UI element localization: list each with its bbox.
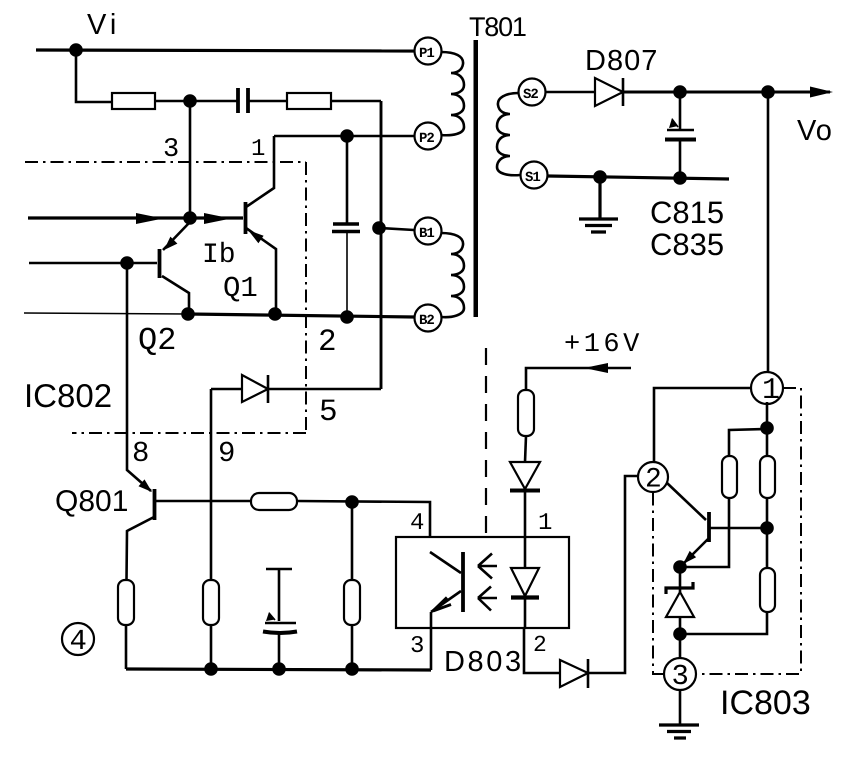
wire D-c to opto pin1 [524,490,527,537]
transistor Q2 [158,249,162,278]
node circled 4 [62,623,94,655]
svg-text:P2: P2 [419,131,434,147]
diode D-a IC802 pin5 [242,375,268,402]
arrow Q801 base [139,479,153,492]
wire R-e bottom lead [210,625,213,669]
svg-text:4: 4 [410,510,424,537]
resistor R-j [760,568,775,612]
resistor R-a [112,93,155,109]
node collector junction [345,495,359,509]
capacitor C-c electrolytic [266,569,292,621]
svg-text:B1: B1 [419,226,434,242]
transistor Q1 [244,202,248,234]
arrow C-c polarity [266,612,275,621]
arrow +16V [584,363,608,373]
wire R-c to opto pin4 [297,501,430,552]
resistor R-g [518,390,534,436]
resistor R-i [760,456,775,498]
capacitor C-b [332,224,360,232]
resistor R-h [722,456,737,498]
arrow C815 polarity [669,118,678,128]
LED of D803 [524,537,527,568]
svg-text:+16V: +16V [564,330,643,360]
node emitter junction IC803 [673,560,687,574]
wire R-f bottom lead [351,625,354,669]
arrow light 2 [478,587,497,611]
svg-text:3: 3 [672,660,689,693]
wire base drive into Q1 [28,216,243,219]
node zener bottom junction [673,627,687,641]
node Vo junction [761,85,775,99]
svg-text:C815: C815 [650,195,724,230]
wire B1 stub [379,228,414,230]
node circled 1 [751,372,783,404]
arrow base drive 1 [136,213,163,224]
svg-text:9: 9 [218,437,235,470]
node rail junction 3 [345,662,359,676]
svg-text:S1: S1 [525,170,540,186]
svg-text:T801: T801 [469,12,526,42]
wire cap C-b top lead [346,136,349,224]
wire D-b to IC803 pin2 [588,476,638,673]
node 3 junction [183,94,197,108]
wire R-f top lead [351,502,354,580]
svg-text:2: 2 [645,465,662,496]
optocoupler D803 box [396,537,569,628]
arrow Q emitter [683,551,696,564]
wire C-c bottom lead [278,633,281,669]
svg-text:Q2: Q2 [138,322,176,359]
node circled 2 [638,462,668,492]
wire Q1 collector [246,136,274,207]
wire opto pin3 down to rail [430,612,433,670]
node base junction [183,211,197,225]
node Vi junction [69,43,83,57]
wire top rail Vi to P1 [36,50,414,51]
diode D-b after pin2 [560,660,588,687]
wire R-h bottom lead [680,498,729,567]
arrow Q1 emitter [248,230,264,243]
ground secondary [579,177,618,232]
wire Q2 emitter from base junction [163,223,189,250]
arrow Vo [810,87,833,98]
node collector junction IC803 [760,521,774,535]
terminal B1 [415,218,442,245]
wire pin9 top to diode [211,388,242,391]
svg-text:1: 1 [251,136,265,163]
wire Q801 collector line [156,500,251,503]
terminal B2 [415,305,442,332]
wire secondary lower rail [548,176,729,179]
dashed separator [485,348,487,533]
node circled 3 [664,658,696,690]
svg-text:3: 3 [410,633,424,660]
node C815 top junction [673,85,687,99]
resistor R-d [118,580,134,625]
svg-text:4: 4 [70,625,87,658]
wire pin9 vertical [210,389,213,580]
phototransistor of D803 [461,552,465,612]
node ground junction [593,170,607,184]
transistor Q-IC803 [707,512,711,542]
wire Vo down to IC803 pin1 [767,92,770,372]
terminal P2 [415,123,442,150]
node B1 junction [372,221,386,235]
resistor R-f [344,580,360,625]
resistor R-b [287,93,331,109]
wire Q2 base line [29,262,157,265]
svg-text:1: 1 [538,510,552,537]
wire cap C-b bottom lead [346,231,348,317]
wire S2 to D807 [546,91,595,94]
wire R-i leads [766,428,769,568]
svg-text:Vo: Vo [797,115,833,147]
wire Q801 emitter [127,517,155,580]
wire node3 vertical [189,101,192,218]
wire R-g to diode [525,436,526,462]
ground IC803 [659,725,699,738]
svg-text:Q801: Q801 [55,485,128,518]
arrow Q2 emitter [164,237,177,250]
terminal S1 [521,162,548,189]
node Q2 base junction [120,256,134,270]
svg-text:2: 2 [318,325,337,360]
wire R-j bottom lead [680,612,767,634]
wire D807 to Vo [623,91,830,94]
svg-text:8: 8 [132,437,149,470]
resistor R-c [251,493,297,510]
wire C-a to R-b [248,100,287,103]
wire pin8 vertical [127,263,151,491]
arrow phototransistor emitter [433,598,451,612]
node Q1 emitter junction [268,307,282,321]
wire node1 line to P2 [274,135,414,138]
svg-text:D803: D803 [444,646,524,678]
wire Q collector [710,527,767,530]
wire R-b right and long vertical to diode line [331,100,381,103]
zener diode Z-a [679,567,682,592]
svg-text:5: 5 [319,395,338,430]
svg-text:1: 1 [762,374,780,408]
capacitor C-a [238,88,248,113]
transistor Q801 [153,489,157,520]
wire opto pin2 down [524,628,560,673]
wire +16V feed [526,368,631,390]
winding P1-P2 [441,52,464,135]
node capacitor bottom junction [340,310,354,324]
terminal S2 [519,79,546,106]
svg-text:IC803: IC803 [720,684,811,722]
wire R-h top lead [729,429,767,456]
wire Q1 emitter [246,228,276,314]
wire R-a to node 3 [155,100,238,103]
IC803 dash-dot boundary [653,388,801,674]
transformer core [474,40,479,317]
winding B1-B2 [441,233,464,317]
wire Q2 collector [162,276,189,314]
svg-text:Q1: Q1 [223,272,258,305]
wire R-d to rail [125,625,128,669]
wire IC803 base [667,483,706,520]
svg-text:S2: S2 [523,87,538,103]
svg-text:Ib: Ib [202,240,236,271]
wire B2 line left thin [24,313,188,314]
wire pin1 to pin2 [654,388,751,462]
node rail junction 2 [272,662,286,676]
wire diode to vertical [268,388,381,391]
wire Vi dot down to R-a [76,50,112,102]
arrow base drive 2 [204,213,231,224]
wire circle3 to ground [679,690,682,724]
resistor R-e [203,580,219,625]
node Q2 collector junction [181,307,195,321]
svg-text:IC802: IC802 [24,377,112,414]
svg-text:3: 3 [163,135,179,165]
svg-text:C835: C835 [650,227,724,262]
IC802 dash-dot boundary [25,162,306,433]
wire B2 line right [188,314,414,317]
svg-text:D807: D807 [585,45,658,77]
node IC803 top junction [760,421,774,435]
arrow light 1 [478,554,497,579]
node rail junction 1 [204,662,218,676]
svg-text:Vi: Vi [87,9,120,41]
terminal P1 [415,38,442,65]
node on node1 line [340,129,354,143]
diode D-c above opto [510,462,540,489]
capacitor C815/C835 [679,92,682,129]
svg-text:2: 2 [533,632,547,658]
svg-text:P1: P1 [419,46,434,62]
wire dot to pin1 [766,402,769,428]
winding S2-S1 [497,93,520,175]
diode D807 [595,78,623,106]
node C815 bottom junction [673,171,687,185]
wire Q emitter [681,539,708,566]
svg-text:B2: B2 [419,313,434,329]
